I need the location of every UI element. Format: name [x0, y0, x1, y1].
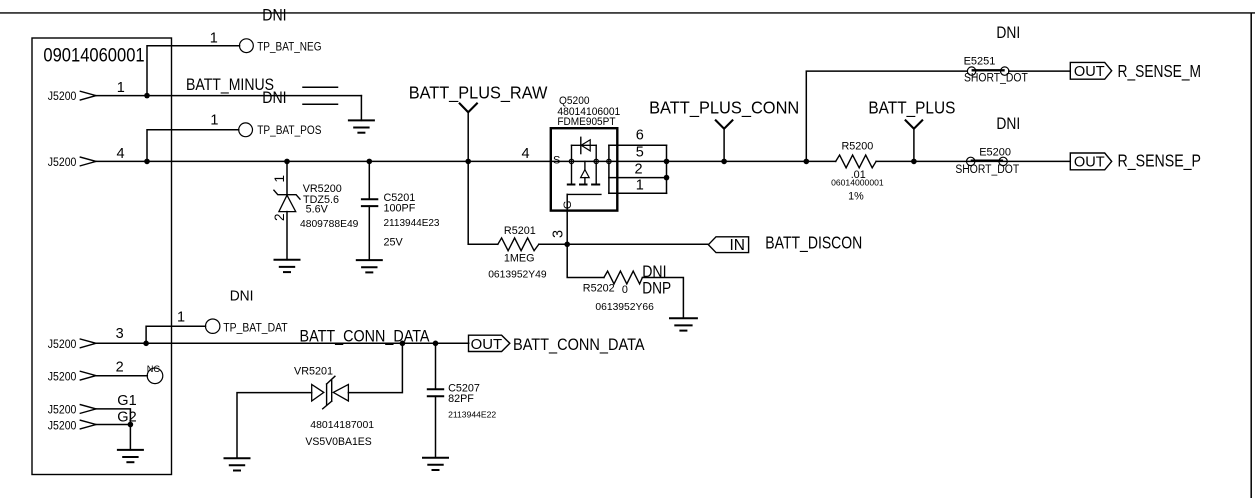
svg-text:R_SENSE_M: R_SENSE_M [1118, 61, 1202, 82]
connector J5200 body [32, 38, 172, 475]
svg-text:J5200: J5200 [48, 337, 77, 351]
junction node BATT_PLUS [911, 159, 917, 165]
wire C5207 drop [435, 343, 437, 389]
wire BATT_MINUS row [96, 95, 361, 97]
svg-text:DNI: DNI [996, 24, 1020, 42]
connector J5200 pin G1 [48, 393, 137, 417]
svg-text:TP_BAT_NEG: TP_BAT_NEG [257, 41, 321, 53]
junction node R_SENSE_M riser [804, 159, 810, 165]
svg-text:25V: 25V [384, 237, 404, 249]
svg-text:1: 1 [177, 309, 185, 325]
svg-text:G1: G1 [117, 393, 136, 409]
ground (R5202) [669, 318, 698, 330]
svg-text:1MEG: 1MEG [504, 253, 535, 265]
ground (VR5201) [224, 458, 251, 470]
resistor R5202 [583, 263, 671, 313]
transistor Q5200 (P-MOSFET) [522, 95, 667, 238]
svg-text:3: 3 [116, 326, 124, 342]
svg-text:J5200: J5200 [48, 418, 77, 432]
svg-text:NC: NC [147, 364, 161, 374]
svg-text:VR5201: VR5201 [294, 366, 333, 378]
port OUT R_SENSE_M [1070, 62, 1111, 80]
svg-text:1: 1 [117, 80, 125, 96]
junction node VR5200 [284, 159, 290, 165]
svg-text:BATT_DISCON: BATT_DISCON [765, 232, 862, 253]
svg-text:1: 1 [210, 113, 218, 129]
test point TP_BAT_POS [210, 113, 321, 137]
wire TP_BAT_NEG stub [147, 46, 240, 96]
svg-text:R5200: R5200 [842, 141, 874, 153]
svg-text:FDME905PT: FDME905PT [557, 116, 615, 128]
port IN BATT_DISCON [708, 237, 748, 254]
svg-text:2: 2 [635, 162, 643, 178]
ground (C5207) [422, 458, 449, 470]
svg-text:4: 4 [117, 146, 125, 162]
capacitor C5207 [427, 383, 497, 420]
junction node gate [564, 242, 570, 248]
junction node on BATT_MINUS [144, 93, 150, 99]
wire TP_BAT_POS stub [147, 130, 239, 162]
svg-text:G2: G2 [117, 409, 136, 425]
resistor R5200 [831, 141, 884, 203]
svg-text:5: 5 [636, 145, 644, 161]
wire R_SENSE_M riser and top run [806, 71, 967, 161]
svg-text:VS5V0BA1ES: VS5V0BA1ES [305, 436, 371, 448]
svg-text:J5200: J5200 [48, 369, 77, 383]
junction node C5207 branch [433, 341, 439, 347]
Q5200 channel dashes [567, 184, 600, 186]
svg-text:OUT: OUT [471, 337, 503, 353]
wire R5201 to IN port [539, 243, 709, 245]
svg-text:R5201: R5201 [504, 225, 536, 237]
junction node C5201 [367, 159, 373, 165]
wire main BATT_PLUS_RAW row [96, 160, 836, 162]
junction node BATT_PLUS_RAW [465, 159, 471, 165]
junction node pin4 [144, 159, 150, 165]
junction node Q5200 drain bus low [664, 175, 670, 181]
svg-text:OUT: OUT [1074, 154, 1105, 171]
power symbol BATT_PLUS_CONN [716, 120, 733, 161]
svg-text:R5202: R5202 [583, 283, 615, 295]
svg-text:DNI: DNI [996, 115, 1020, 133]
resistor R5201 [488, 225, 547, 280]
svg-text:BATT_PLUS_CONN: BATT_PLUS_CONN [649, 97, 799, 118]
wire BATT_MINUS to ground drop [360, 96, 362, 121]
wire Q5200 gate drop [566, 194, 568, 244]
svg-text:5.6V: 5.6V [306, 204, 329, 216]
svg-text:IN: IN [730, 237, 746, 254]
svg-text:1: 1 [210, 30, 218, 46]
ground (J5200 G2) [117, 450, 144, 462]
Q5200 drain pins 6 5 2 1 [609, 144, 667, 146]
junction node pin3 [143, 341, 149, 347]
capacitor C5201 [361, 161, 440, 260]
svg-text:TP_BAT_DAT: TP_BAT_DAT [223, 323, 287, 335]
port OUT R_SENSE_P [1070, 153, 1111, 171]
junction node Q5200 drain bus top [664, 159, 670, 165]
svg-text:6: 6 [636, 128, 644, 144]
junction node VR5201 branch [400, 341, 406, 347]
wire R5202 to ground [642, 278, 683, 319]
junction node G2 [128, 422, 134, 428]
wire E5251 to OUT port [1009, 70, 1071, 72]
svg-text:DNI: DNI [262, 89, 286, 107]
svg-text:G: G [562, 201, 574, 210]
svg-text:E5251: E5251 [964, 55, 996, 67]
wire BATT_PLUS_RAW down to R5201 [468, 161, 498, 244]
Q5200 pin circles [569, 159, 573, 163]
power symbol BATT_PLUS_RAW [460, 104, 477, 162]
svg-text:J5200: J5200 [48, 89, 77, 103]
svg-text:2113944E23: 2113944E23 [384, 218, 440, 229]
wire VR5201 right leg riser [348, 343, 402, 392]
wire VR5201 left leg to ground [237, 393, 312, 459]
svg-text:BATT_MINUS: BATT_MINUS [186, 76, 274, 94]
Q5200 gate plate [567, 193, 601, 195]
svg-text:OUT: OUT [1074, 63, 1105, 80]
test point TP_BAT_NEG [210, 30, 322, 53]
svg-text:82PF: 82PF [448, 393, 474, 405]
svg-text:06014000001: 06014000001 [831, 178, 884, 188]
TVS diode VR5201 [294, 366, 374, 449]
svg-text:J5200: J5200 [48, 403, 77, 417]
svg-text:1: 1 [272, 175, 287, 183]
svg-text:4809788E49: 4809788E49 [300, 219, 359, 230]
svg-text:TP_BAT_POS: TP_BAT_POS [257, 125, 322, 137]
svg-text:SHORT_DOT: SHORT_DOT [964, 72, 1028, 84]
power symbol BATT_PLUS [906, 120, 923, 161]
connector J5200 pin 4 [48, 146, 125, 169]
svg-text:3: 3 [551, 230, 567, 238]
svg-text:DNI: DNI [642, 263, 666, 281]
short E5200 SHORT_DOT [955, 146, 1019, 176]
junction node BATT_PLUS_CONN [721, 159, 727, 165]
test point TP_BAT_DAT [177, 309, 288, 334]
ground (BATT_MINUS DNI ground) [348, 120, 375, 132]
connector J5200 pin G2 [48, 409, 137, 432]
port OUT BATT_CONN_DATA [469, 335, 510, 353]
svg-text:R_SENSE_P: R_SENSE_P [1118, 151, 1202, 172]
svg-text:2: 2 [116, 360, 124, 376]
svg-text:48014187001: 48014187001 [310, 419, 374, 431]
short E5251 SHORT_DOT [964, 55, 1028, 84]
wire gate to R5202 [567, 244, 604, 277]
svg-text:DNI: DNI [262, 7, 286, 25]
Q5200 body arrow [584, 161, 586, 170]
Q5200 source/drain verticals [571, 145, 573, 184]
svg-text:E5200: E5200 [979, 146, 1011, 158]
svg-text:0613952Y49: 0613952Y49 [488, 269, 547, 280]
svg-text:2: 2 [272, 213, 287, 221]
svg-text:J5200: J5200 [48, 155, 77, 169]
ground (VR5200) [274, 260, 301, 272]
no-connect NC on pin 2 [147, 364, 163, 384]
svg-text:DNI: DNI [230, 289, 254, 305]
svg-text:2113944E22: 2113944E22 [448, 410, 496, 420]
connector J5200 pin 2 [48, 360, 124, 384]
svg-text:BATT_CONN_DATA: BATT_CONN_DATA [300, 327, 431, 346]
svg-text:1%: 1% [848, 190, 864, 202]
ground (C5201) [356, 260, 383, 272]
svg-text:4: 4 [522, 146, 530, 162]
svg-text:100PF: 100PF [384, 203, 416, 215]
wire main row after R5200 [876, 160, 1070, 162]
svg-text:S: S [553, 154, 560, 166]
svg-text:BATT_CONN_DATA: BATT_CONN_DATA [513, 335, 645, 354]
svg-text:1: 1 [636, 178, 644, 194]
svg-text:BATT_PLUS_RAW: BATT_PLUS_RAW [409, 82, 548, 103]
svg-text:0613952Y66: 0613952Y66 [595, 302, 654, 313]
svg-text:0: 0 [622, 284, 628, 296]
svg-text:DNP: DNP [642, 279, 671, 297]
wire TP_BAT_DAT stub [146, 326, 205, 343]
connector J5200 pin 1 [48, 80, 125, 103]
wire BATT_CONN_DATA row [96, 342, 469, 344]
svg-text:SHORT_DOT: SHORT_DOT [955, 164, 1019, 176]
svg-text:BATT_PLUS: BATT_PLUS [868, 97, 955, 118]
Q5200 source rail and body diode [572, 144, 597, 146]
wire G1 G2 to ground [96, 409, 130, 450]
zener diode VR5200 [272, 161, 359, 259]
DNI strike marks on ground connection [303, 86, 338, 88]
connector J5200 pin 3 [48, 326, 124, 351]
svg-text:09014060001: 09014060001 [43, 45, 144, 67]
wire pin 2 to NC [96, 375, 147, 377]
